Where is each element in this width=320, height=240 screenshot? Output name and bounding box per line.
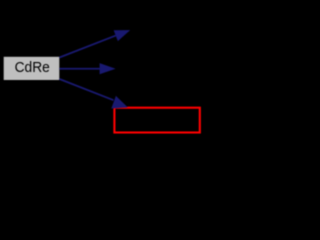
edge arrow to top-right node bbox=[59, 30, 130, 57]
edge arrow to middle-right node bbox=[59, 63, 115, 74]
node (red border, truncated graph) bbox=[114, 108, 199, 133]
node CdRe (current node, grey filled) bbox=[4, 57, 60, 80]
svg-text:CdRe: CdRe bbox=[15, 59, 50, 76]
edge arrow to red node bbox=[59, 79, 127, 109]
